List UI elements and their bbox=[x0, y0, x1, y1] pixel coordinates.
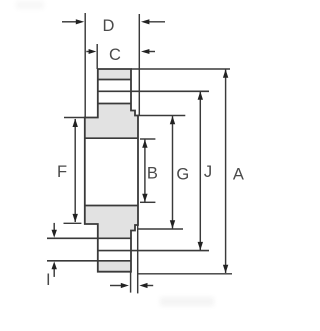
dimension D left extension line bbox=[84, 13, 86, 118]
flange body gray band: upper shoulder and flange top bbox=[85, 104, 138, 139]
bottom hub groove 2 / J bottom extension bbox=[98, 250, 209, 252]
svg-text:B: B bbox=[147, 165, 158, 183]
svg-text:G: G bbox=[176, 166, 189, 184]
faint bottom watermark smudge bbox=[160, 297, 214, 306]
svg-text:J: J bbox=[204, 163, 212, 181]
dimension A line with arrows bbox=[225, 69, 227, 273]
flange body gray band: hub bottom bbox=[98, 261, 131, 272]
dimension I bottom arrow (outside, pointing up) bbox=[53, 269, 55, 277]
bottom dimension left extension line (hub edge extended) bbox=[130, 272, 132, 293]
dimension B bottom extension line bbox=[140, 201, 155, 203]
hub groove line 1 bbox=[98, 79, 131, 81]
dimension A bottom extension line bbox=[138, 273, 232, 275]
flange groove bottom bbox=[85, 205, 138, 207]
svg-text:D: D bbox=[103, 17, 115, 35]
dimension A top extension line bbox=[131, 68, 230, 70]
bottom dimension right arrow bbox=[145, 285, 153, 287]
dimension G line with arrows bbox=[172, 116, 174, 229]
flange body gray band: flange bottom and lower shoulder bbox=[85, 206, 138, 239]
dimension F top extension line bbox=[64, 117, 85, 119]
flange groove top bbox=[85, 137, 138, 139]
hub groove line 3 bbox=[98, 103, 131, 105]
svg-text:I: I bbox=[46, 271, 51, 289]
hub groove line 2 / J top extension bbox=[98, 90, 209, 92]
dimension B line with arrows bbox=[144, 139, 146, 202]
dimension G bottom extension line bbox=[138, 228, 183, 230]
svg-text:C: C bbox=[109, 46, 121, 64]
dimension B top extension line bbox=[140, 138, 155, 140]
dimension D right arrow bbox=[147, 21, 165, 23]
bottom hub groove 3 / I bottom extension bbox=[47, 260, 131, 262]
dimension C right arrow bbox=[147, 51, 155, 53]
dimension J line with arrows bbox=[199, 91, 201, 250]
dimension F bottom extension line bbox=[64, 222, 82, 224]
dimension C left extension line bbox=[96, 44, 98, 69]
flange body gray band: hub top bbox=[98, 69, 131, 80]
dimension F line with arrows bbox=[74, 119, 76, 222]
dimension I top arrow (outside, pointing down) bbox=[53, 223, 55, 231]
dimension D/C right extension line bbox=[138, 14, 140, 116]
bottom hub groove 1 / I top extension bbox=[47, 237, 131, 239]
svg-text:A: A bbox=[233, 166, 244, 184]
svg-text:F: F bbox=[57, 163, 67, 181]
dimension D left arrow bbox=[62, 21, 78, 23]
dimension G top extension line bbox=[138, 115, 185, 117]
bottom dimension left arrow bbox=[110, 285, 122, 287]
body outline bbox=[85, 69, 138, 272]
faint top-left smudge bbox=[16, 1, 44, 9]
dimension C left arrow bbox=[86, 51, 91, 53]
bottom dimension right extension line (flange edge extended) bbox=[137, 225, 139, 293]
